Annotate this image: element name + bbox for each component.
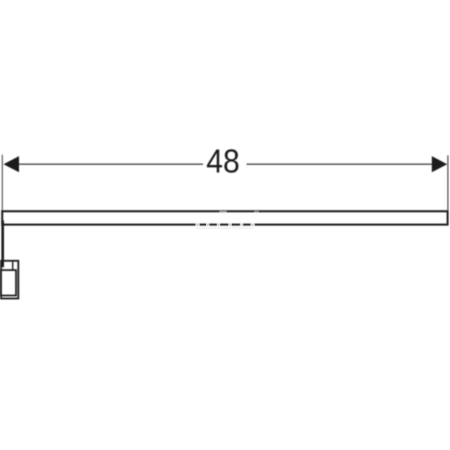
extension line left [1,155,3,211]
bar profile (48 cm rail, side view) [2,211,447,224]
wall/glass clamp inner slot [1,270,16,295]
clamp top divider [12,261,14,270]
wall/glass clamp outer body [1,261,18,299]
bracket stem (vertical leg to clamp) [1,221,4,268]
svg-text:48: 48 [206,143,240,180]
dimension line right segment [247,163,435,165]
extension line right [447,155,449,210]
faint watermark erasures over bar lines [195,211,259,230]
arrowhead right [432,156,447,172]
arrowhead left [4,156,20,172]
dimension line left segment [16,163,203,165]
